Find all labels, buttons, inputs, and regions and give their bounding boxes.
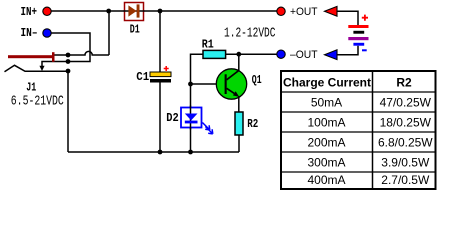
- node junction R1/collector: [236, 52, 241, 57]
- svg-text:D2: D2: [166, 111, 179, 125]
- wire IN- to riser: [42, 33, 90, 67]
- svg-text:J1: J1: [26, 80, 36, 94]
- wire battery top: [338, 11, 359, 25]
- svg-text:18/0.25W: 18/0.25W: [380, 115, 432, 129]
- svg-text:Charge Current: Charge Current: [283, 75, 371, 89]
- svg-text:IN–: IN–: [21, 26, 38, 40]
- svg-text:200mA: 200mA: [307, 135, 345, 149]
- resistor R2: [235, 112, 258, 135]
- node rail C1: [158, 150, 163, 155]
- svg-text:–OUT: –OUT: [290, 49, 318, 61]
- wire battery bottom: [338, 46, 359, 55]
- wire IN+ to D1: [52, 10, 125, 12]
- wire R1 left branch: [191, 54, 204, 84]
- wire R1 right to -OUT: [226, 53, 277, 55]
- terminal IN+: [43, 7, 51, 15]
- svg-text:R1: R1: [202, 38, 214, 52]
- svg-text:6.8/0.25W: 6.8/0.25W: [378, 135, 433, 149]
- node junction base/D2: [188, 82, 193, 87]
- wire C1 to rail: [159, 83, 161, 153]
- wire base: [191, 83, 226, 85]
- svg-text:100mA: 100mA: [307, 115, 345, 129]
- battery + connector arrow (red): [325, 6, 338, 16]
- table: R2 selection: [281, 71, 436, 189]
- jack J1 tip bar: [8, 55, 54, 58]
- LED light arrows: [202, 123, 212, 134]
- resistor R1: [202, 38, 226, 59]
- svg-text:+OUT: +OUT: [290, 6, 318, 18]
- node dot3: [66, 69, 71, 74]
- svg-text:47/0.25W: 47/0.25W: [380, 95, 432, 109]
- wire jack tip line with hop: [53, 51, 109, 55]
- svg-text:D1: D1: [130, 22, 140, 36]
- wire D1 to +OUT: [144, 10, 277, 12]
- node junction D1 out / C1 branch: [158, 9, 163, 14]
- terminal IN-: [43, 29, 51, 37]
- battery - connector arrow (blue): [325, 50, 338, 60]
- wire D1 junction down to C1: [159, 11, 161, 72]
- LED D2: [166, 106, 201, 130]
- wire emitter to R2: [238, 96, 240, 112]
- svg-text:50mA: 50mA: [311, 95, 342, 109]
- wire R2 to rail: [238, 135, 240, 152]
- wire D2 drop: [190, 84, 192, 152]
- svg-text:IN+: IN+: [21, 5, 38, 19]
- node junction IN+ / jack tip riser: [106, 9, 111, 14]
- node rail D2: [188, 150, 193, 155]
- transistor Q1: [216, 69, 261, 99]
- svg-text:R2: R2: [247, 117, 258, 131]
- svg-text:400mA: 400mA: [307, 173, 345, 187]
- svg-text:Q1: Q1: [252, 73, 262, 87]
- svg-text:6.5-21VDC: 6.5-21VDC: [11, 95, 64, 110]
- svg-text:3.9/0.5W: 3.9/0.5W: [381, 155, 430, 169]
- svg-text:300mA: 300mA: [307, 155, 345, 169]
- terminal -OUT: [277, 50, 285, 58]
- capacitor C1: [136, 66, 171, 84]
- node dot1: [66, 53, 71, 58]
- wire bottom rail: [68, 151, 239, 153]
- battery B1: [348, 15, 368, 51]
- diode D1: [124, 3, 145, 37]
- wire ground drop from dot3: [67, 71, 69, 152]
- wire collector: [238, 54, 240, 70]
- svg-text:2.7/0.5W: 2.7/0.5W: [381, 173, 430, 187]
- svg-text:1.2-12VDC: 1.2-12VDC: [224, 27, 276, 42]
- node dot2: [66, 59, 71, 64]
- wire jack tip riser: [108, 11, 110, 55]
- jack switch arrow: [39, 66, 44, 71]
- svg-text:C1: C1: [136, 70, 149, 84]
- jack J1 lever: [5, 65, 69, 72]
- svg-text:R2: R2: [396, 75, 412, 89]
- terminal +OUT: [277, 7, 285, 15]
